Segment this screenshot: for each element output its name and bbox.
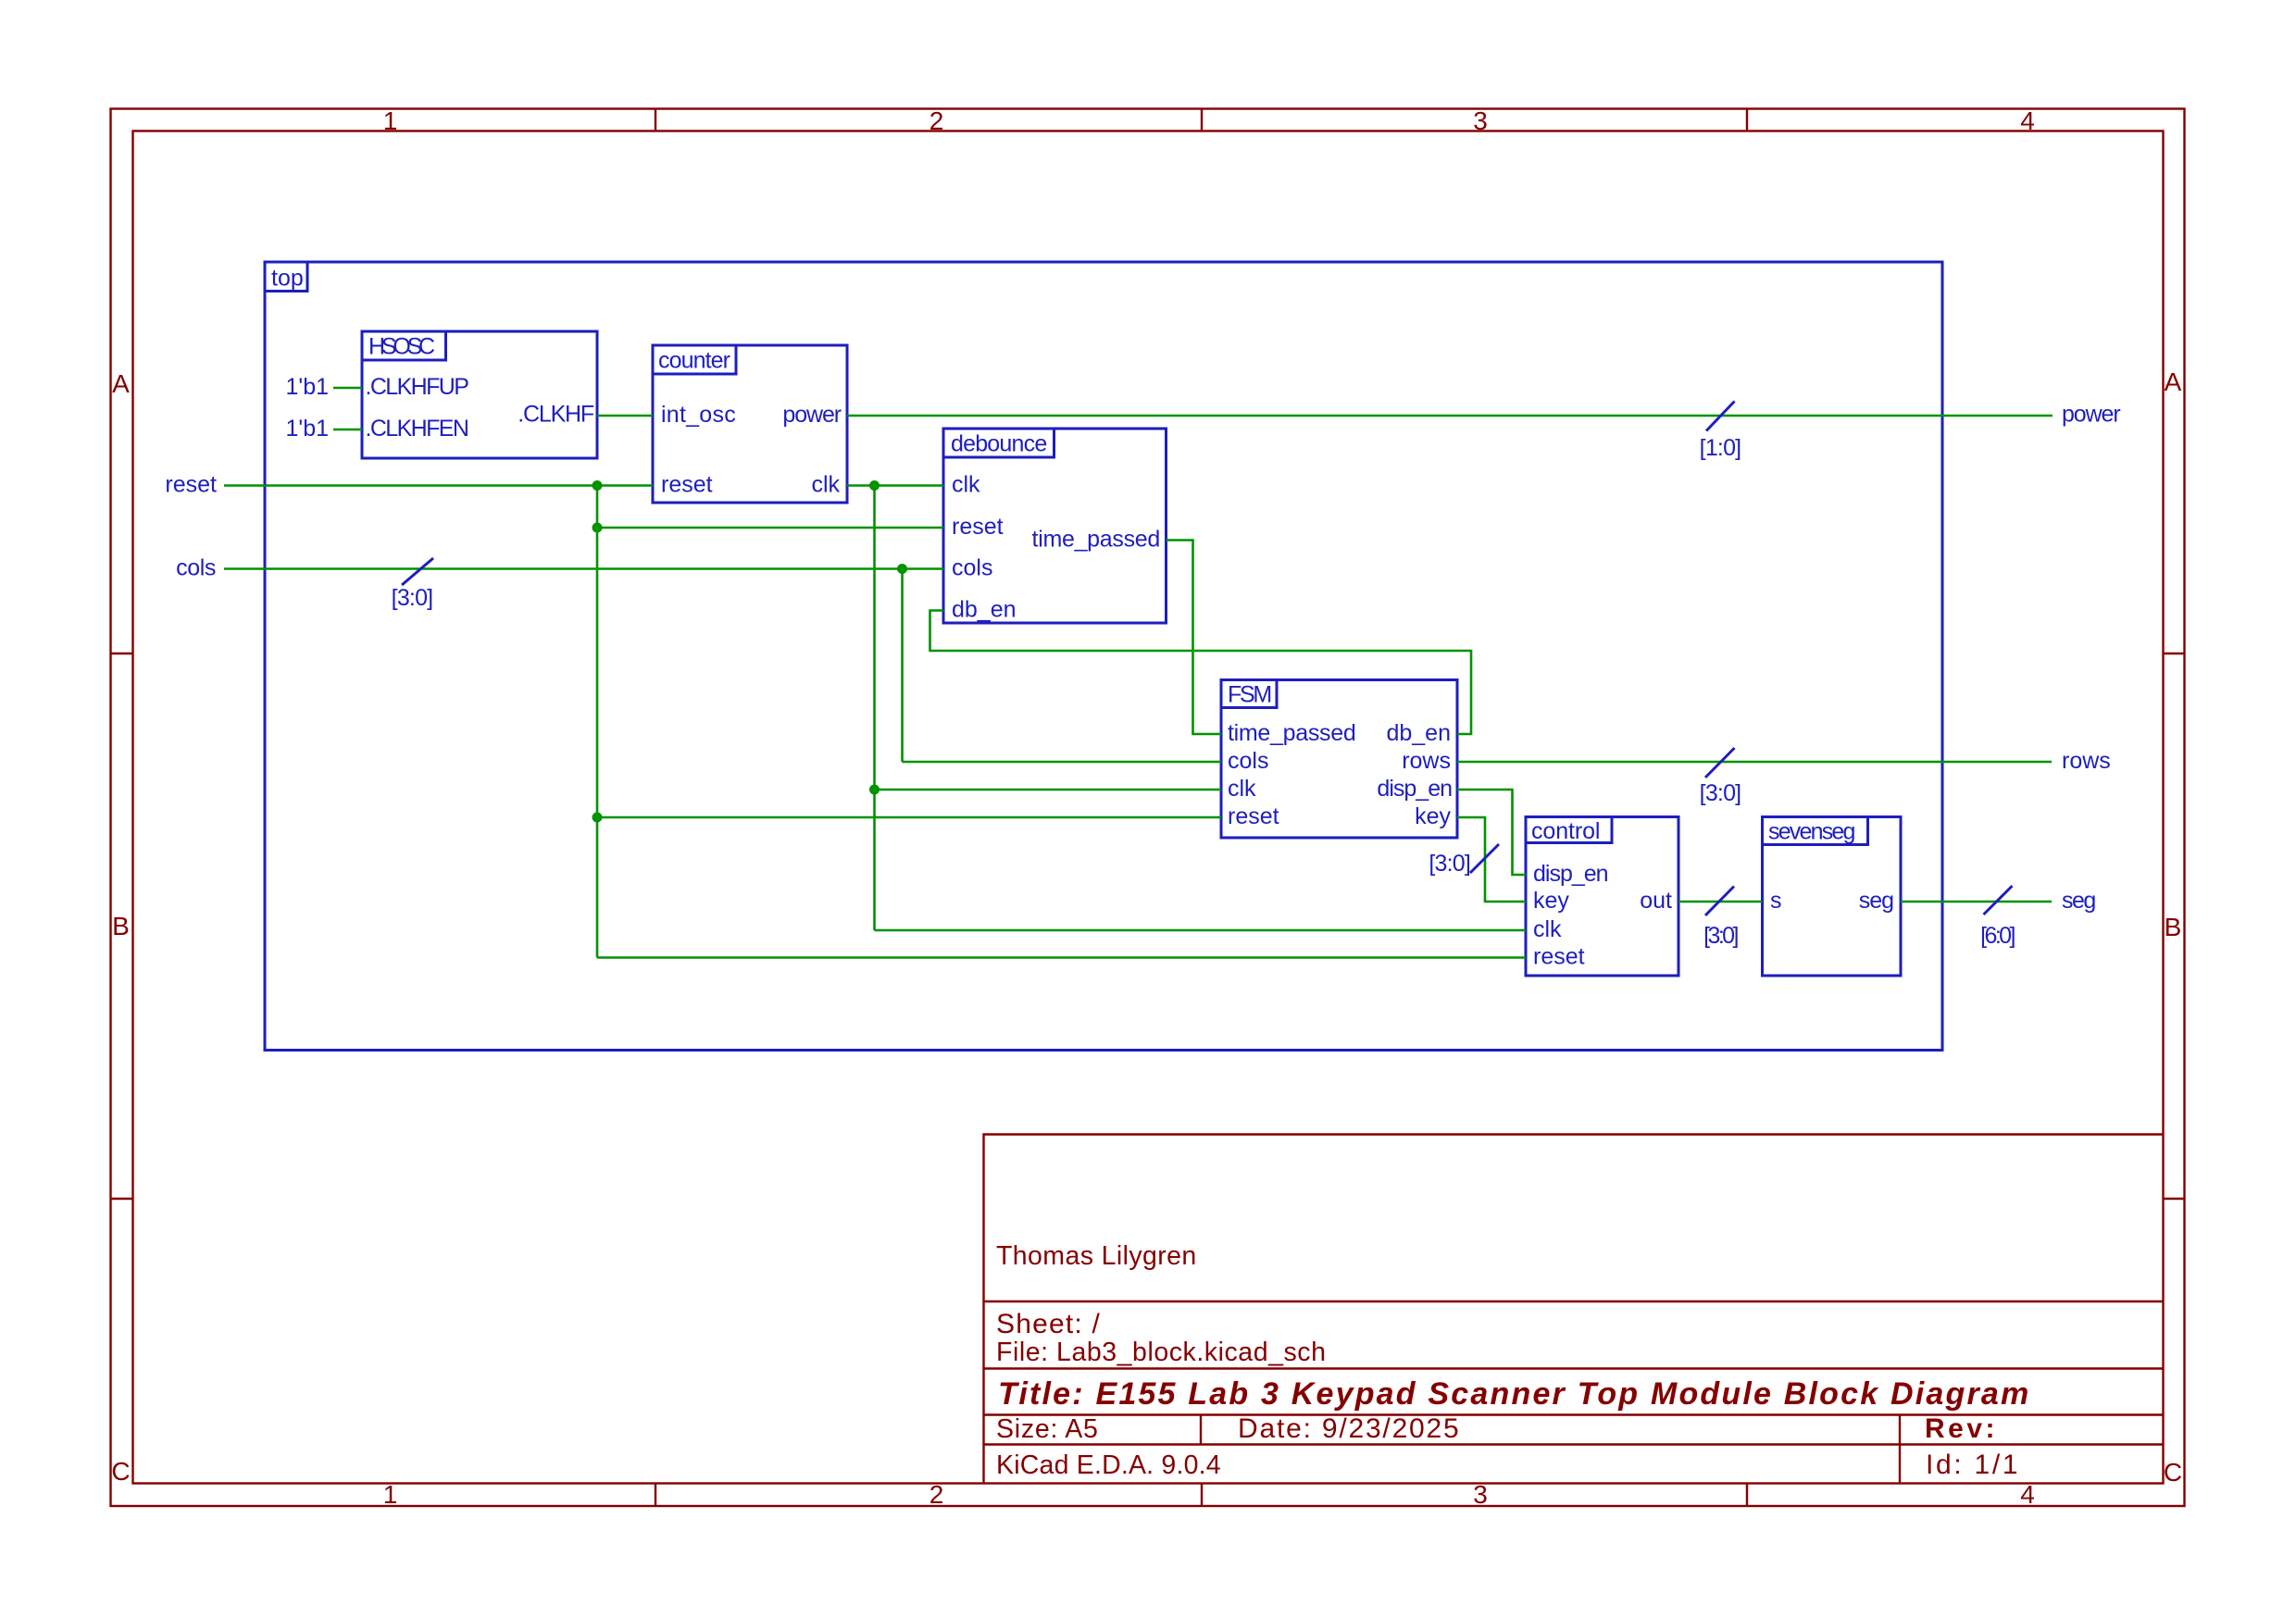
- wire power bus: [847, 415, 2053, 417]
- title block line under comment row: [984, 1301, 2164, 1302]
- svg-text:cols: cols: [1228, 748, 1268, 774]
- svg-text:top: top: [271, 266, 304, 292]
- svg-text:B: B: [2165, 913, 2182, 941]
- svg-text:counter: counter: [658, 348, 730, 374]
- svg-text:reset: reset: [165, 472, 217, 498]
- svg-text:[3:0]: [3:0]: [1429, 851, 1470, 877]
- svg-text:power: power: [782, 402, 841, 428]
- svg-text:FSM: FSM: [1228, 682, 1270, 708]
- junction reset at counter row: [593, 480, 603, 491]
- wire cols bus main: [224, 567, 943, 570]
- junction reset FSM branch: [593, 813, 603, 823]
- column tick 3|4 top: [1746, 109, 1748, 131]
- svg-text:[3:0]: [3:0]: [392, 585, 433, 611]
- row tick B|C right: [2164, 1198, 2185, 1200]
- row tick A|B left: [111, 653, 133, 654]
- svg-text:clk: clk: [1228, 776, 1256, 802]
- bus slash out: [1705, 887, 1734, 916]
- wire .CLKHF to int_osc: [597, 415, 653, 417]
- svg-text:3: 3: [1473, 1480, 1488, 1509]
- svg-text:Id: 1/1: Id: 1/1: [1926, 1450, 2020, 1480]
- wire time_passed debounce to FSM: [1167, 541, 1222, 735]
- title block line under title row: [984, 1413, 2164, 1415]
- wire reset to debounce: [597, 527, 943, 529]
- junction reset debounce branch: [593, 523, 603, 533]
- title block divider size|date: [1200, 1415, 1202, 1445]
- svg-text:Thomas Lilygren: Thomas Lilygren: [996, 1241, 1197, 1271]
- svg-text:disp_en: disp_en: [1533, 861, 1608, 887]
- svg-text:clk: clk: [952, 472, 980, 498]
- svg-text:debounce: debounce: [951, 431, 1046, 457]
- wire 1'b1 to .CLKHFEN: [333, 429, 362, 431]
- wire reset vertical drop: [596, 486, 599, 958]
- svg-text:[3:0]: [3:0]: [1703, 923, 1738, 949]
- svg-text:clk: clk: [811, 472, 840, 498]
- svg-text:C: C: [111, 1457, 130, 1486]
- svg-text:db_en: db_en: [1386, 720, 1451, 746]
- svg-text:1: 1: [383, 1480, 398, 1509]
- sheet frame inner border: [133, 131, 2164, 1484]
- column tick 2|3 bottom: [1201, 1484, 1203, 1507]
- svg-text:File: Lab3_block.kicad_sch: File: Lab3_block.kicad_sch: [996, 1338, 1327, 1367]
- svg-text:2: 2: [930, 106, 944, 135]
- bus slash rows: [1705, 748, 1735, 778]
- svg-text:1: 1: [383, 106, 398, 135]
- svg-text:.CLKHF: .CLKHF: [518, 402, 594, 428]
- wire 1'b1 to .CLKHFUP: [333, 387, 362, 390]
- svg-text:int_osc: int_osc: [661, 402, 736, 428]
- svg-text:rows: rows: [2062, 748, 2111, 774]
- svg-text:1'b1: 1'b1: [286, 374, 329, 400]
- wire cols vertical drop: [901, 569, 904, 763]
- svg-text:4: 4: [2020, 106, 2035, 135]
- title block line under size/date row: [984, 1443, 2164, 1445]
- svg-text:A: A: [2165, 367, 2182, 396]
- svg-text:Rev:: Rev:: [1925, 1413, 1998, 1444]
- wire reset main: [224, 484, 653, 487]
- svg-text:Sheet: /: Sheet: /: [996, 1309, 1101, 1339]
- column tick 1|2 bottom: [655, 1484, 656, 1507]
- svg-text:disp_en: disp_en: [1377, 776, 1452, 802]
- svg-text:clk: clk: [1533, 916, 1562, 942]
- sheet block sevenseg: [1763, 817, 1902, 977]
- svg-text:key: key: [1415, 803, 1451, 829]
- wire db_en FSM to debounce: [930, 611, 1472, 735]
- wire key FSM to control: [1457, 817, 1526, 902]
- svg-text:.CLKHFUP: .CLKHFUP: [366, 374, 469, 400]
- svg-text:control: control: [1531, 818, 1600, 844]
- row tick A|B right: [2164, 653, 2185, 654]
- column tick 3|4 bottom: [1746, 1484, 1748, 1507]
- svg-text:B: B: [112, 912, 130, 940]
- wire clk vertical drop: [873, 486, 876, 931]
- wire rows bus: [1457, 761, 2052, 764]
- svg-text:out: out: [1640, 888, 1672, 914]
- svg-text:.CLKHFEN: .CLKHFEN: [366, 416, 468, 442]
- sheet block debounce: [943, 429, 1167, 623]
- sheet block HSOSC: [362, 331, 597, 458]
- svg-text:seg: seg: [1859, 888, 1893, 914]
- svg-text:cols: cols: [952, 555, 992, 581]
- svg-text:reset: reset: [952, 514, 1004, 540]
- sheet frame outer border: [111, 109, 2185, 1507]
- svg-text:A: A: [112, 369, 130, 398]
- title block border: [984, 1135, 2164, 1484]
- junction clk FSM branch: [869, 785, 880, 795]
- svg-text:Size: A5: Size: A5: [996, 1414, 1099, 1444]
- wire clk to FSM: [875, 789, 1222, 791]
- svg-text:sevenseg: sevenseg: [1768, 819, 1855, 845]
- svg-text:reset: reset: [661, 472, 713, 498]
- column tick 1|2 top: [655, 109, 656, 131]
- title block divider rev/id: [1899, 1415, 1901, 1484]
- sheet block counter: [653, 345, 847, 503]
- svg-text:3: 3: [1473, 106, 1488, 135]
- svg-text:1'b1: 1'b1: [286, 416, 329, 442]
- svg-text:[6:0]: [6:0]: [1980, 923, 2015, 949]
- svg-text:C: C: [2164, 1458, 2182, 1487]
- svg-text:4: 4: [2020, 1480, 2035, 1509]
- wire reset to control: [597, 956, 1526, 959]
- wire clk counter to debounce: [847, 484, 943, 487]
- svg-text:time_passed: time_passed: [1032, 527, 1160, 553]
- bus slash seg: [1984, 886, 2013, 915]
- junction cols debounce branch: [897, 564, 907, 574]
- svg-text:Date: 9/23/2025: Date: 9/23/2025: [1238, 1413, 1461, 1444]
- svg-text:key: key: [1533, 888, 1569, 914]
- svg-text:KiCad E.D.A. 9.0.4: KiCad E.D.A. 9.0.4: [996, 1450, 1221, 1480]
- wire clk to control: [875, 929, 1527, 932]
- row tick B|C left: [111, 1198, 133, 1200]
- bus slash power: [1706, 402, 1735, 431]
- sheet block top: [265, 262, 1942, 1051]
- wire disp_en FSM to control: [1457, 790, 1526, 875]
- svg-text:2: 2: [930, 1480, 944, 1509]
- wire seg bus: [1901, 901, 2052, 903]
- svg-text:HSOSC: HSOSC: [368, 334, 435, 360]
- title block line under sheet/file row: [984, 1367, 2164, 1369]
- svg-text:reset: reset: [1533, 944, 1585, 970]
- svg-text:s: s: [1770, 888, 1782, 914]
- svg-text:reset: reset: [1228, 803, 1279, 829]
- svg-text:time_passed: time_passed: [1228, 720, 1355, 746]
- column tick 2|3 top: [1201, 109, 1203, 131]
- sheet block control: [1526, 817, 1678, 977]
- svg-text:cols: cols: [176, 555, 216, 581]
- svg-text:[3:0]: [3:0]: [1700, 780, 1741, 806]
- wire cols to FSM: [903, 761, 1222, 764]
- wire reset to FSM: [597, 816, 1221, 819]
- svg-text:rows: rows: [1402, 748, 1451, 774]
- sheet block FSM: [1221, 680, 1457, 839]
- svg-text:db_en: db_en: [952, 597, 1017, 623]
- svg-text:power: power: [2062, 402, 2120, 428]
- bus slash cols: [402, 558, 433, 585]
- svg-text:Title: E155 Lab 3 Keypad Scann: Title: E155 Lab 3 Keypad Scanner Top Mod…: [998, 1376, 2030, 1412]
- junction clk at counter row: [869, 480, 880, 491]
- svg-text:seg: seg: [2062, 888, 2095, 914]
- bus slash key: [1470, 844, 1499, 873]
- svg-text:[1:0]: [1:0]: [1700, 435, 1741, 461]
- wire out control to sevenseg: [1678, 901, 1763, 903]
